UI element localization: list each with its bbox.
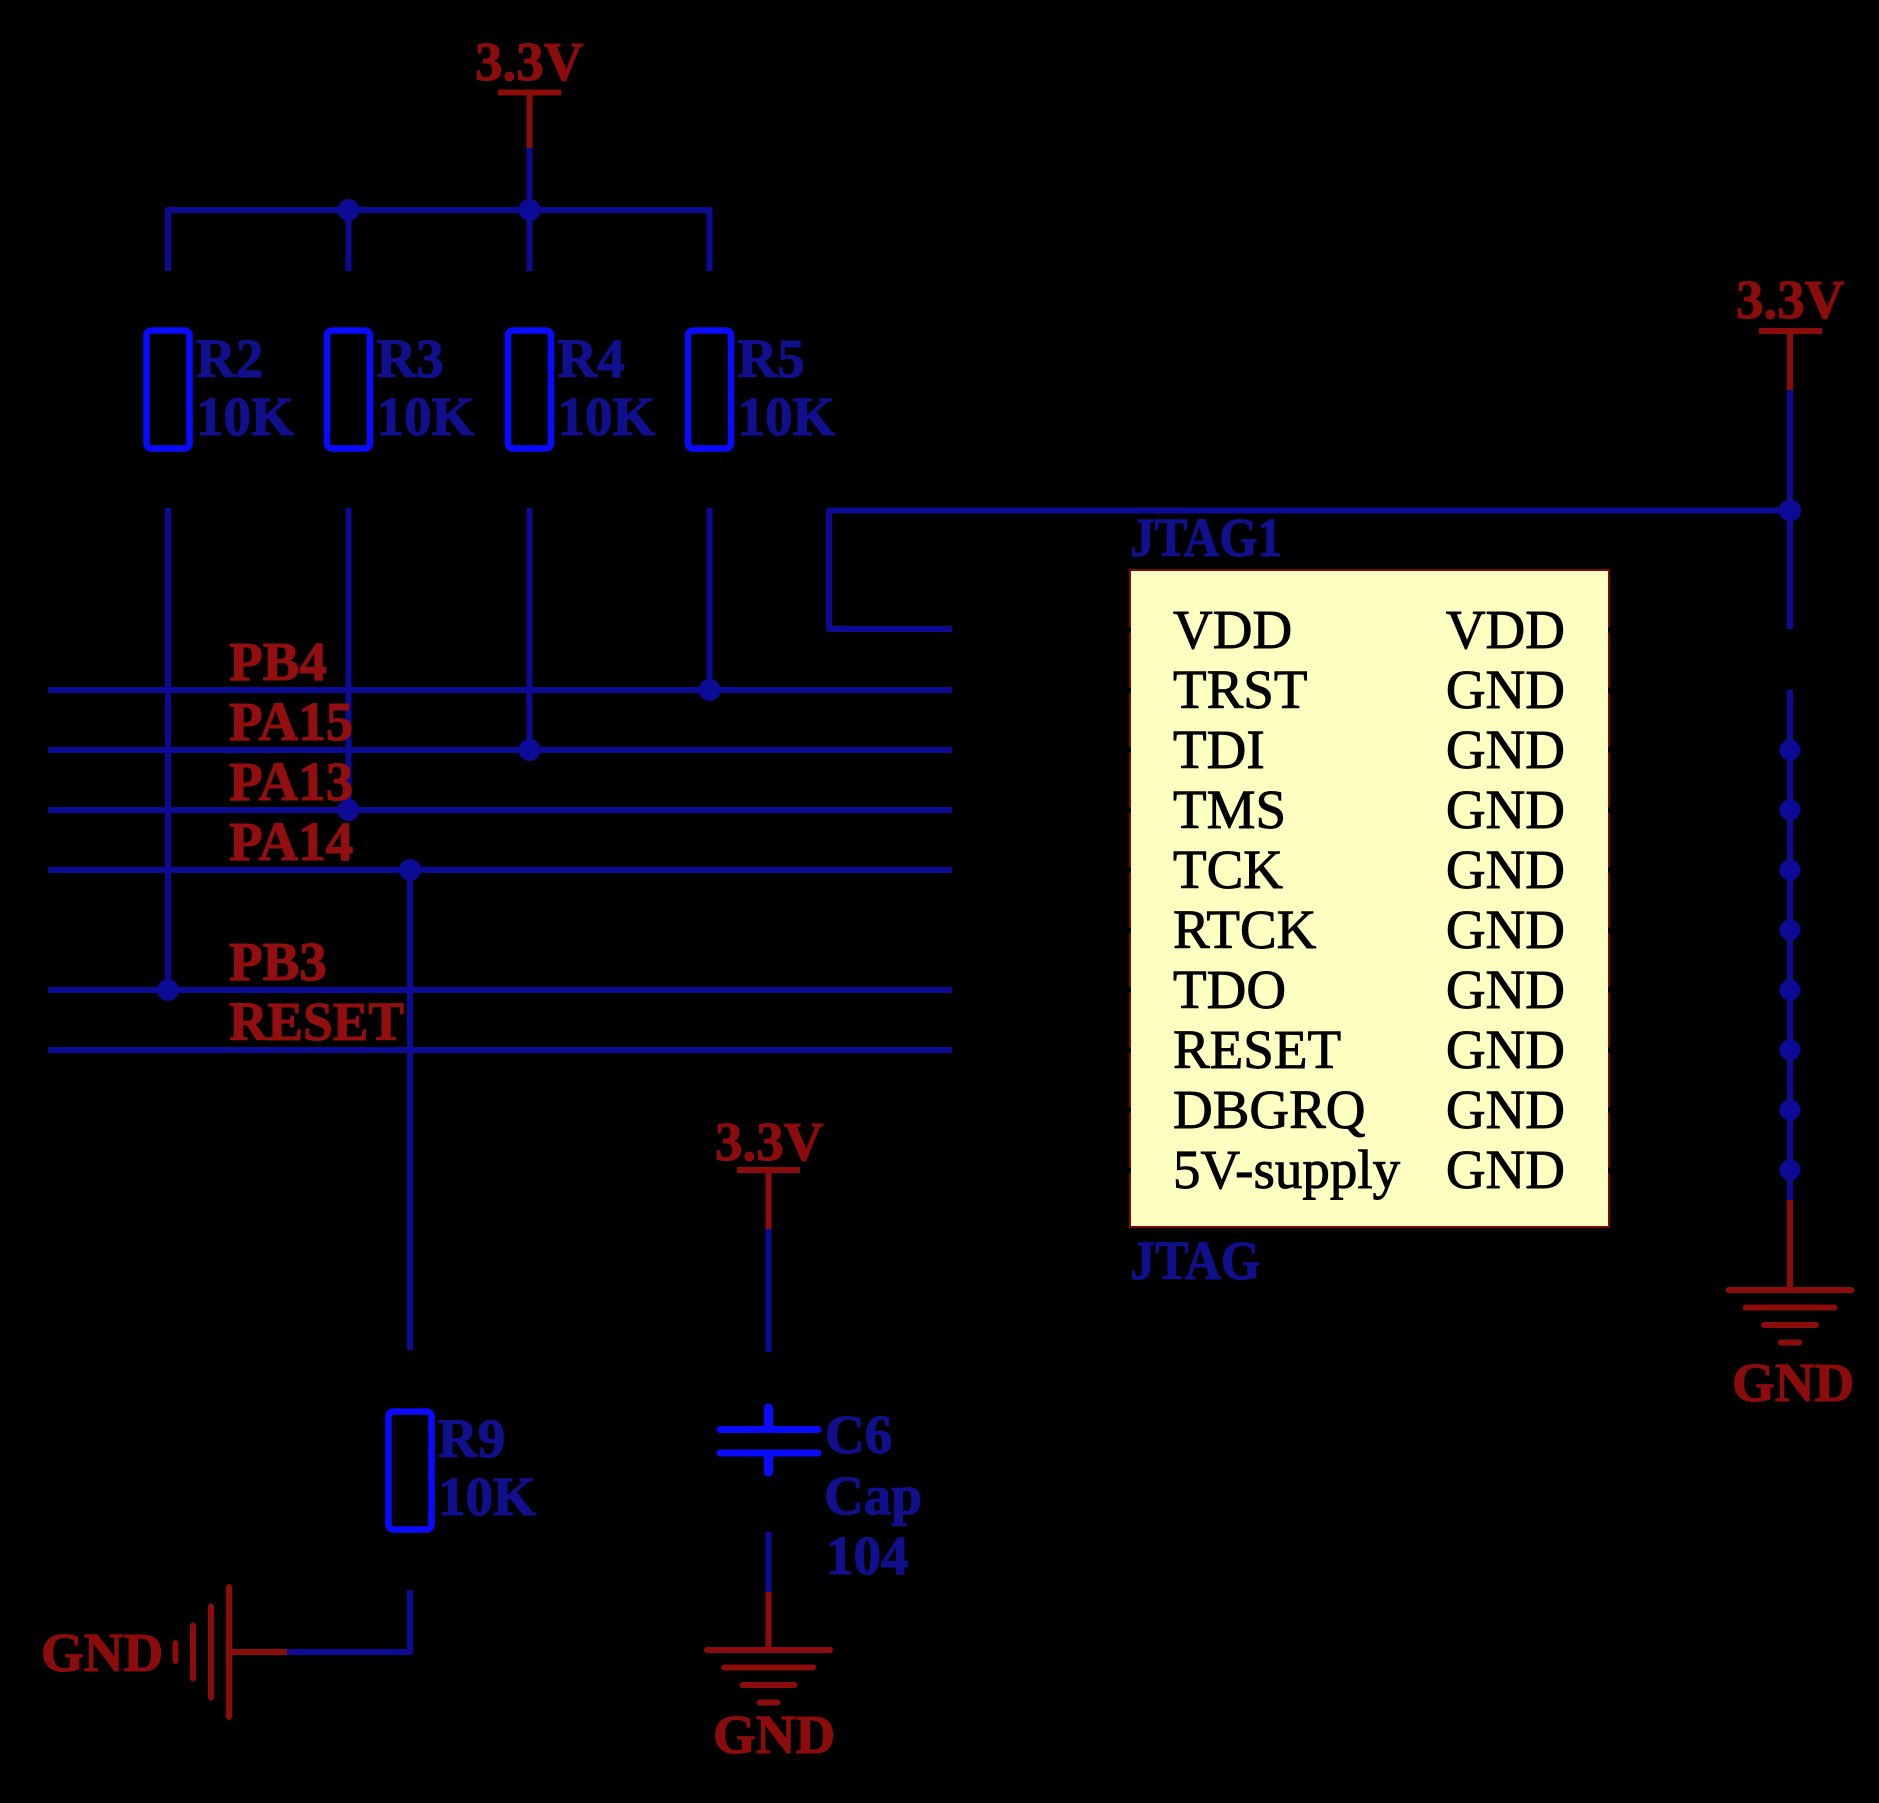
power port 3.3V above C6 <box>715 1111 824 1229</box>
svg-text:GND: GND <box>1732 1352 1854 1413</box>
wire R9 to ground <box>287 1590 410 1652</box>
junction dot GND/RESET row <box>1780 1040 1801 1061</box>
junction dot PA14/R9 <box>399 859 421 881</box>
svg-text:R9: R9 <box>438 1408 505 1469</box>
wire junction down to right VDD pin <box>1787 511 1793 630</box>
svg-text:RESET: RESET <box>229 991 404 1052</box>
wire net PB3 <box>48 987 952 993</box>
junction dot GND/TMS row <box>1780 800 1801 821</box>
svg-text:PA14: PA14 <box>229 811 353 872</box>
junction dot GND/RTCK row <box>1780 920 1801 941</box>
junction dot PB4/R5 <box>699 679 721 701</box>
connector JTAG1 <box>1130 507 1609 1291</box>
power port GND right <box>1729 1200 1855 1413</box>
svg-text:TCK: TCK <box>1173 839 1283 900</box>
pin 19 5V-supply <box>1122 1139 1401 1200</box>
junction dot PB3/R2 <box>157 979 179 1001</box>
svg-text:PB3: PB3 <box>229 931 327 992</box>
svg-text:10K: 10K <box>558 386 656 447</box>
pin 1 VDD <box>1122 599 1292 660</box>
junction dot GND/5V row <box>1780 1160 1801 1181</box>
pin 2 VDD right <box>1446 599 1617 660</box>
svg-text:3.3V: 3.3V <box>715 1111 824 1172</box>
wire R5 to PB4 net <box>707 508 713 690</box>
wire net RESET <box>48 1047 952 1053</box>
pin 20 GND right <box>1446 1139 1617 1200</box>
svg-text:R5: R5 <box>738 328 805 389</box>
wire C6 to GND <box>766 1532 772 1592</box>
pin 3 TRST <box>1122 659 1307 720</box>
junction dot PA13/R3 <box>338 799 360 821</box>
pin 18 GND right <box>1446 1079 1617 1140</box>
svg-text:TMS: TMS <box>1173 779 1286 840</box>
svg-text:GND: GND <box>1446 839 1565 900</box>
wire VDD horizontal to JTAG <box>829 511 1790 630</box>
junction dot PA15/R4 <box>519 739 541 761</box>
junction dot 3.3V/VDD <box>1779 500 1801 522</box>
svg-text:RTCK: RTCK <box>1173 899 1317 960</box>
svg-text:PA13: PA13 <box>229 751 353 812</box>
wire GND rail right side <box>1787 690 1793 1200</box>
svg-text:TDI: TDI <box>1173 719 1265 780</box>
svg-text:GND: GND <box>1446 719 1565 780</box>
junction dot at bus/R4 <box>519 199 541 221</box>
svg-text:TRST: TRST <box>1173 659 1307 720</box>
wire from 3.3V to bus <box>527 148 533 210</box>
svg-text:Cap: Cap <box>824 1465 922 1526</box>
svg-text:DBGRQ: DBGRQ <box>1173 1079 1366 1140</box>
junction dot GND/TDO row <box>1780 980 1801 1001</box>
wire net PA13 <box>48 807 952 813</box>
pin 17 DBGRQ <box>1122 1079 1366 1140</box>
wire stub to R3 <box>346 210 352 271</box>
svg-text:GND: GND <box>1446 1079 1565 1140</box>
wire net PA15 <box>48 747 952 753</box>
svg-text:GND: GND <box>1446 779 1565 840</box>
svg-text:VDD: VDD <box>1446 599 1565 660</box>
wire R2 to PB3 net <box>165 508 171 990</box>
wire stub to R4 <box>527 210 533 271</box>
pin 13 TDO <box>1122 959 1286 1020</box>
svg-text:RESET: RESET <box>1173 1019 1341 1080</box>
svg-text:JTAG1: JTAG1 <box>1130 507 1282 568</box>
wire bus above resistors <box>168 210 710 271</box>
svg-text:GND: GND <box>1446 1019 1565 1080</box>
junction dot at bus/R3 <box>338 199 360 221</box>
power port GND left (sideways earth) <box>41 1587 287 1717</box>
wire 3.3V to C6 <box>766 1229 772 1352</box>
svg-text:5V-supply: 5V-supply <box>1173 1139 1401 1200</box>
svg-text:GND: GND <box>1446 899 1565 960</box>
svg-text:JTAG: JTAG <box>1130 1230 1260 1291</box>
capacitor C6 <box>720 1404 922 1586</box>
pin 11 RTCK <box>1122 899 1317 960</box>
pin 5 TDI <box>1122 719 1265 780</box>
svg-text:C6: C6 <box>825 1404 892 1465</box>
wire net PB4 <box>48 687 952 693</box>
pin 12 GND right <box>1446 899 1617 960</box>
resistor R3 <box>327 328 475 449</box>
svg-text:3.3V: 3.3V <box>1736 269 1845 330</box>
pin 7 TMS <box>1122 779 1286 840</box>
svg-text:R4: R4 <box>558 328 625 389</box>
svg-text:10K: 10K <box>196 386 294 447</box>
wire R3 to PA13 net <box>346 508 352 810</box>
svg-text:GND: GND <box>41 1622 163 1683</box>
svg-text:R3: R3 <box>377 328 444 389</box>
svg-text:10K: 10K <box>377 386 475 447</box>
pin 8 GND right <box>1446 779 1617 840</box>
svg-text:104: 104 <box>826 1525 909 1586</box>
svg-text:10K: 10K <box>738 386 836 447</box>
svg-text:VDD: VDD <box>1173 599 1292 660</box>
resistor R4 <box>508 328 656 449</box>
svg-text:PA15: PA15 <box>229 691 353 752</box>
svg-text:PB4: PB4 <box>229 631 327 692</box>
pin 16 GND right <box>1446 1019 1617 1080</box>
junction dot GND/DBGRQ row <box>1780 1100 1801 1121</box>
power port 3.3V top-right <box>1736 269 1845 390</box>
wire net PA14 <box>48 867 952 873</box>
svg-text:R2: R2 <box>196 328 263 389</box>
svg-text:GND: GND <box>1446 959 1565 1020</box>
svg-text:10K: 10K <box>438 1466 536 1527</box>
pin 14 GND right <box>1446 959 1617 1020</box>
svg-text:TDO: TDO <box>1173 959 1286 1020</box>
resistor R5 <box>688 328 836 449</box>
svg-text:3.3V: 3.3V <box>475 31 584 92</box>
junction dot GND/TDI row <box>1780 740 1801 761</box>
svg-text:GND: GND <box>713 1704 835 1765</box>
pin 15 RESET <box>1122 1019 1341 1080</box>
svg-text:GND: GND <box>1446 1139 1565 1200</box>
svg-text:GND: GND <box>1446 659 1565 720</box>
pin 9 TCK <box>1122 839 1283 900</box>
wire 3.3V right down to junction <box>1787 390 1793 511</box>
junction dot GND/TCK row <box>1780 860 1801 881</box>
pin 6 GND right <box>1446 719 1617 780</box>
power port GND below C6 <box>707 1592 835 1765</box>
pin 4 GND right <box>1446 659 1617 720</box>
power port 3.3V top-left <box>475 31 584 148</box>
resistor R9 <box>389 1408 537 1530</box>
resistor R2 <box>147 328 295 449</box>
wire PA14 down to R9 <box>407 870 413 1350</box>
wire R4 to PA15 net <box>527 508 533 750</box>
pin 10 GND right <box>1446 839 1617 900</box>
